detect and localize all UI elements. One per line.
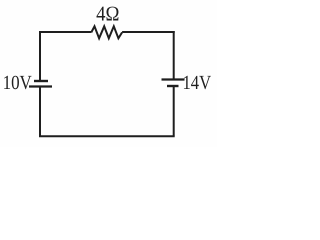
battery V2 (14V): long positive plate (top) and short negative plate (bottom) xyxy=(162,80,185,87)
wire: top-right horizontal segment (resistor right lead to top-right corner) xyxy=(122,31,175,33)
wire: left side lower vertical segment (battery V1 down to bottom-left corner) xyxy=(39,88,41,136)
svg-text:10V: 10V xyxy=(3,72,33,94)
svg-text:4Ω: 4Ω xyxy=(96,2,119,26)
wire: right side upper vertical segment (top-right corner down to battery V2) xyxy=(173,31,175,79)
resistor R1 4Ω (zigzag body) xyxy=(91,26,122,38)
wire: top-left horizontal segment (top-left corner to resistor left lead) xyxy=(39,31,91,33)
battery V1 (10V): short negative plate (top) and long positive plate (bottom) xyxy=(29,81,52,87)
wire: left side upper vertical segment (top-left corner down to battery V1) xyxy=(39,31,41,80)
wire: bottom horizontal segment (bottom-left corner to bottom-right corner) xyxy=(39,135,175,137)
wire: right side lower vertical segment (battery V2 down to bottom-right corner) xyxy=(173,87,175,136)
svg-text:14V: 14V xyxy=(183,72,212,94)
